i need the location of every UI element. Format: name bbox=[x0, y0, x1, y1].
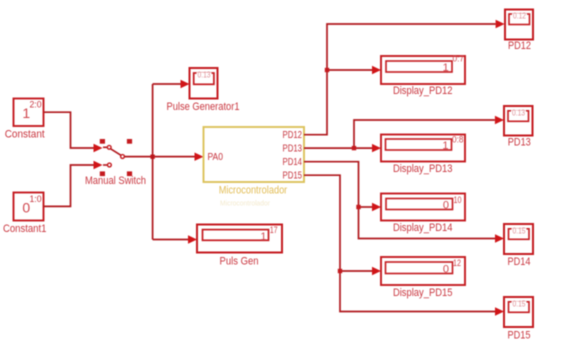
svg-text:0: 0 bbox=[443, 264, 449, 276]
svg-text:0.13: 0.13 bbox=[512, 108, 525, 117]
wire PD14 to Display_PD14 and scope PD14 bbox=[304, 162, 504, 243]
svg-text:PD12: PD12 bbox=[508, 40, 531, 52]
svg-text:Microcontrolador: Microcontrolador bbox=[220, 201, 271, 208]
svg-text:2:0: 2:0 bbox=[30, 100, 42, 110]
svg-text:PD15: PD15 bbox=[283, 171, 303, 182]
svg-text:0.13: 0.13 bbox=[198, 71, 211, 80]
scope block PD12 bbox=[505, 10, 533, 53]
microcontroller block U1 Microcontrolador bbox=[204, 127, 305, 208]
svg-text:PD14: PD14 bbox=[283, 157, 303, 168]
svg-text:PD14: PD14 bbox=[508, 256, 531, 268]
svg-text:0.12: 0.12 bbox=[513, 12, 526, 21]
svg-text:1: 1 bbox=[443, 62, 449, 74]
svg-text:PD13: PD13 bbox=[283, 144, 303, 155]
wire PD12 to scope PD12 and Display_PD12 bbox=[304, 20, 505, 135]
svg-text:0.15: 0.15 bbox=[513, 299, 526, 308]
svg-text:0:7: 0:7 bbox=[453, 54, 465, 65]
svg-text:PA0: PA0 bbox=[208, 152, 224, 163]
display block Puls Gen bbox=[197, 225, 282, 268]
wire PD15 to Display_PD15 and scope PD15 bbox=[304, 175, 504, 316]
svg-text:Constant1: Constant1 bbox=[3, 223, 47, 235]
svg-text:0.15: 0.15 bbox=[513, 226, 526, 235]
scope block PD15 bbox=[504, 297, 533, 341]
scope block PD14 bbox=[504, 224, 533, 268]
svg-text:0:8: 0:8 bbox=[452, 135, 464, 146]
svg-text:12: 12 bbox=[453, 258, 461, 269]
constant block Constant bbox=[5, 99, 45, 141]
svg-text:Pulse Generator1: Pulse Generator1 bbox=[167, 101, 240, 113]
svg-text:Puls Gen: Puls Gen bbox=[220, 255, 259, 267]
node junction at trunk bbox=[150, 155, 154, 159]
scope block PD13 bbox=[504, 106, 533, 148]
svg-text:PD12: PD12 bbox=[283, 130, 303, 141]
wire switch output to PA0 with branch trunk bbox=[125, 153, 204, 161]
svg-text:Display_PD13: Display_PD13 bbox=[393, 163, 453, 175]
svg-text:Constant: Constant bbox=[5, 129, 45, 141]
svg-text:17: 17 bbox=[270, 225, 278, 236]
svg-text:1: 1 bbox=[260, 231, 266, 243]
wire trunk vertical to Pulse Generator1 and Puls Gen bbox=[153, 80, 197, 244]
svg-text:Display_PD12: Display_PD12 bbox=[393, 85, 453, 97]
svg-text:Manual Switch: Manual Switch bbox=[85, 175, 146, 187]
svg-text:10: 10 bbox=[454, 195, 462, 206]
svg-text:1: 1 bbox=[442, 140, 448, 152]
svg-text:Microcontrolador: Microcontrolador bbox=[219, 185, 288, 197]
svg-text:PD15: PD15 bbox=[508, 329, 531, 341]
display block Display_PD13 bbox=[381, 135, 465, 176]
manual switch Manual Switch bbox=[85, 139, 146, 187]
constant block Constant1 bbox=[3, 193, 47, 235]
svg-text:PD13: PD13 bbox=[508, 136, 531, 148]
svg-text:Display_PD15: Display_PD15 bbox=[393, 287, 453, 299]
display block Display_PD14 bbox=[381, 194, 465, 235]
display block Display_PD15 bbox=[381, 257, 465, 299]
svg-text:Display_PD14: Display_PD14 bbox=[393, 222, 453, 234]
wire PD13 to Display_PD13 and scope PD13 bbox=[304, 116, 504, 153]
svg-text:1:0: 1:0 bbox=[30, 194, 42, 204]
svg-text:0: 0 bbox=[443, 200, 449, 212]
wire Constant to switch upper input bbox=[44, 112, 103, 152]
wire Constant1 to switch lower input bbox=[44, 161, 103, 207]
display block Display_PD12 bbox=[381, 54, 465, 98]
scope block Pulse Generator1 bbox=[167, 68, 240, 113]
